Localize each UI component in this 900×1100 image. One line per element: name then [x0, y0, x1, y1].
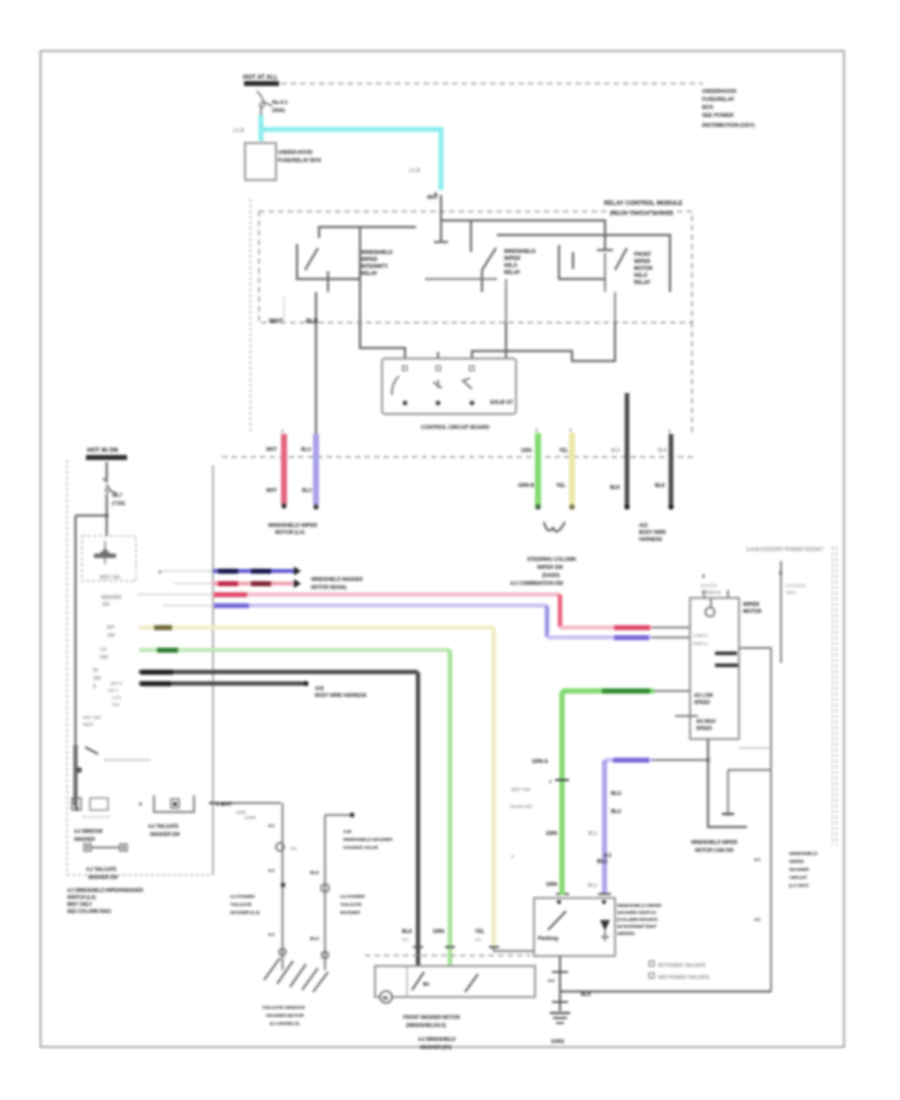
svg-text:WASHER: WASHER: [74, 837, 95, 843]
svg-text:BLK: BLK: [310, 936, 320, 942]
svg-text:WIPER: WIPER: [789, 859, 804, 865]
svg-text:SPEED: SPEED: [694, 700, 711, 706]
svg-text:4-2 COMBINATION SW: 4-2 COMBINATION SW: [510, 581, 563, 587]
svg-text:HI: HI: [93, 668, 98, 674]
svg-text:BLK: BLK: [310, 870, 320, 876]
svg-text:SOLID ST: SOLID ST: [490, 400, 513, 406]
svg-text:BLK: BLK: [581, 992, 592, 998]
svg-text:YEL: YEL: [559, 448, 568, 454]
svg-text:W/ POWER TAILGATE: W/ POWER TAILGATE: [658, 963, 707, 969]
svg-text:UNDER-HOOD: UNDER-HOOD: [278, 150, 313, 156]
svg-text:BOX: BOX: [702, 105, 714, 111]
svg-text:BLU: BLU: [611, 791, 622, 797]
svg-text:WIPER: WIPER: [634, 259, 651, 265]
svg-text:CONTROL CIRCUIT BOARD: CONTROL CIRCUIT BOARD: [421, 425, 490, 431]
svg-text:WASHER SWITCH: WASHER SWITCH: [617, 910, 656, 916]
svg-text:4-5: 4-5: [290, 846, 297, 852]
svg-text:(+) B: (+) B: [409, 168, 421, 174]
svg-text:HI/LO: HI/LO: [634, 273, 647, 279]
svg-text:No.7: No.7: [112, 493, 122, 499]
svg-text:RELAY: RELAY: [361, 271, 378, 277]
svg-text:4-2 TAILGATE: 4-2 TAILGATE: [86, 867, 117, 873]
svg-text:BODY WIRE: BODY WIRE: [639, 530, 667, 536]
svg-text:BODY WIRE HARNESS: BODY WIRE HARNESS: [315, 693, 367, 699]
svg-text:FRONT WASHER MOTOR: FRONT WASHER MOTOR: [403, 1015, 460, 1021]
svg-text:TAILGATE WINDOW: TAILGATE WINDOW: [262, 1005, 305, 1011]
svg-text:SEE COLUMN DIAG: SEE COLUMN DIAG: [67, 909, 112, 915]
svg-text:4-2 POWER: 4-2 POWER: [230, 894, 255, 900]
svg-text:GRN B: GRN B: [518, 483, 535, 489]
svg-text:GRN A: GRN A: [532, 759, 548, 765]
svg-text:No.4-1: No.4-1: [272, 100, 288, 106]
svg-text:(COLUMN MOUNT): (COLUMN MOUNT): [617, 917, 658, 923]
svg-text:(LX MODELS): (LX MODELS): [270, 1021, 300, 1027]
svg-text:GRN: GRN: [546, 831, 558, 837]
svg-text:BLK: BLK: [655, 483, 666, 489]
svg-text:BLK: BLK: [611, 448, 621, 454]
svg-text:TAILGATE: TAILGATE: [230, 902, 253, 908]
svg-text:RELAY: RELAY: [634, 280, 651, 286]
svg-text:WHT: WHT: [266, 488, 277, 494]
svg-text:TAILGATE: TAILGATE: [340, 902, 363, 908]
svg-text:WASHER (LX): WASHER (LX): [230, 910, 260, 916]
svg-text:ACC: ACC: [786, 590, 796, 596]
svg-text:BLU: BLU: [301, 447, 311, 453]
svg-text:W/ INTERMITTENT: W/ INTERMITTENT: [617, 924, 657, 930]
svg-text:BLU: BLU: [588, 831, 598, 837]
svg-text:(RELAY CIRCUIT BOARD): (RELAY CIRCUIT BOARD): [610, 211, 673, 217]
svg-text:4-2 WINDSHIELD: 4-2 WINDSHIELD: [418, 1037, 456, 1043]
svg-text:WIPER SW: WIPER SW: [537, 565, 563, 571]
svg-text:(+) 4-2 (+): (+) 4-2 (+): [786, 583, 806, 589]
svg-text:INT 7: INT 7: [108, 688, 119, 693]
svg-text:WASH SW: WASH SW: [510, 804, 533, 810]
svg-text:AS HIGH: AS HIGH: [696, 719, 716, 725]
svg-text:CIRCUIT: CIRCUIT: [789, 875, 807, 881]
svg-text:RELAY CONTROL MODULE: RELAY CONTROL MODULE: [604, 201, 683, 207]
svg-text:BLU: BLU: [597, 859, 608, 865]
svg-text:INT: INT: [107, 625, 115, 631]
svg-text:FRONT: FRONT: [634, 252, 651, 258]
svg-text:OFF 8: OFF 8: [110, 681, 123, 686]
svg-text:WINDSHIELD WASHER: WINDSHIELD WASHER: [343, 837, 393, 843]
svg-text:(+) 2 (+): (+) 2 (+): [701, 583, 717, 589]
svg-text:MIST SW: MIST SW: [511, 787, 531, 793]
svg-text:HOT IN ON: HOT IN ON: [87, 448, 118, 454]
svg-text:12345: 12345: [244, 815, 256, 820]
svg-text:WASHER: WASHER: [340, 910, 361, 916]
svg-text:BLU: BLU: [588, 883, 598, 889]
svg-text:MOTOR CAM SW: MOTOR CAM SW: [695, 848, 734, 854]
svg-text:5 WHT: 5 WHT: [216, 802, 232, 808]
svg-text:A16: A16: [315, 686, 324, 692]
svg-text:WIPER: WIPER: [504, 256, 521, 262]
svg-text:SW: SW: [102, 602, 110, 608]
svg-text:WINDSHIELD WASHER: WINDSHIELD WASHER: [311, 577, 363, 583]
svg-text:AS LOW: AS LOW: [694, 693, 713, 699]
svg-text:4: 4: [434, 192, 437, 198]
svg-text:INTERMITT.: INTERMITT.: [361, 264, 389, 270]
svg-text:SPEED: SPEED: [696, 726, 713, 732]
svg-text:SEE POWER: SEE POWER: [702, 113, 734, 119]
svg-text:HARNESS: HARNESS: [639, 537, 663, 543]
svg-text:SWITCH (LX): SWITCH (LX): [67, 895, 96, 901]
svg-text:4: 4: [779, 571, 782, 577]
svg-text:LO: LO: [100, 647, 107, 653]
svg-text:A16: A16: [343, 829, 352, 835]
svg-text:SW: SW: [93, 676, 101, 682]
svg-text:YEL: YEL: [556, 483, 566, 489]
svg-text:MIST SW: MIST SW: [100, 575, 120, 581]
svg-text:(30A): (30A): [272, 108, 285, 114]
svg-text:4: 4: [281, 429, 284, 435]
svg-text:BLU: BLU: [611, 809, 622, 815]
svg-text:WINDSHIELD WIPER: WINDSHIELD WIPER: [691, 840, 738, 846]
svg-text:4: 4: [569, 428, 572, 434]
svg-text:4-2: 4-2: [268, 823, 275, 829]
svg-text:MOTOR: MOTOR: [743, 609, 762, 615]
svg-text:BLK: BLK: [402, 929, 413, 935]
svg-text:BLU: BLU: [302, 488, 312, 494]
svg-text:M: M: [383, 996, 388, 1002]
svg-text:WASHER (DX): WASHER (DX): [420, 1045, 452, 1051]
svg-text:(7.5A): (7.5A): [112, 501, 125, 507]
svg-text:WASHER SW: WASHER SW: [150, 832, 180, 838]
svg-text:4-2 TAILGATE: 4-2 TAILGATE: [148, 824, 179, 830]
svg-text:4-2 WINDSHIELD WIPER/WASHER: 4-2 WINDSHIELD WIPER/WASHER: [67, 888, 144, 894]
svg-text:UNDERHOOD: UNDERHOOD: [702, 89, 736, 95]
svg-text:(+) B: (+) B: [233, 128, 245, 134]
svg-text:BLK: BLK: [610, 485, 621, 491]
svg-text:FUSE/RELAY BOX: FUSE/RELAY BOX: [278, 158, 322, 164]
svg-text:GRN: GRN: [546, 882, 558, 888]
svg-text:KEY SW: KEY SW: [83, 715, 101, 721]
svg-text:MOTOR (LX): MOTOR (LX): [275, 530, 305, 536]
svg-text:(DASH): (DASH): [542, 573, 560, 579]
svg-text:4-2: 4-2: [548, 978, 555, 984]
svg-text:BLK: BLK: [658, 448, 668, 454]
svg-text:M+: M+: [423, 982, 430, 988]
svg-text:Parking: Parking: [538, 936, 558, 942]
svg-text:WASHER: WASHER: [101, 595, 122, 601]
svg-text:WINDSHIELD: WINDSHIELD: [504, 249, 536, 255]
svg-text:YEL: YEL: [475, 929, 485, 935]
svg-text:S-A ACCESSORY POWER SOCKET: S-A ACCESSORY POWER SOCKET: [746, 547, 824, 553]
svg-text:WIPERS: WIPERS: [617, 931, 636, 937]
svg-text:MIST ONLY: MIST ONLY: [67, 902, 93, 908]
svg-text:HI/LO: HI/LO: [504, 263, 517, 269]
svg-text:G401: G401: [551, 1039, 564, 1045]
svg-text:DISTRIBUTION (ODY): DISTRIBUTION (ODY): [702, 123, 755, 129]
svg-text:MOTOR: MOTOR: [634, 266, 653, 272]
svg-text:MOTOR SIGNAL: MOTOR SIGNAL: [311, 585, 348, 591]
svg-text:4-2: 4-2: [268, 868, 275, 874]
svg-text:WINDSHIELD: WINDSHIELD: [361, 250, 393, 256]
svg-text:LO 6: LO 6: [112, 695, 122, 700]
svg-text:4-2: 4-2: [475, 937, 482, 942]
svg-text:FUSE/RELAY: FUSE/RELAY: [702, 97, 735, 103]
svg-text:W/O POWER TAILGATE: W/O POWER TAILGATE: [658, 975, 710, 981]
svg-text:CHANGE VALVE: CHANGE VALVE: [343, 845, 379, 851]
svg-text:A22: A22: [639, 523, 648, 529]
svg-text:GRN: GRN: [521, 448, 532, 454]
svg-text:4-2 WINDOW: 4-2 WINDOW: [74, 829, 103, 835]
svg-text:(WINDSHIELD/LX): (WINDSHIELD/LX): [406, 1023, 446, 1029]
svg-text:4: 4: [702, 574, 705, 580]
svg-text:4-2: 4-2: [268, 932, 275, 938]
svg-text:HI 5: HI 5: [112, 702, 120, 707]
svg-text:GRN: GRN: [433, 929, 445, 935]
svg-text:MIST: MIST: [83, 722, 94, 728]
svg-text:WIPER: WIPER: [743, 602, 760, 608]
svg-text:HIGH 1: HIGH 1: [693, 641, 708, 647]
svg-text:4-2: 4-2: [402, 937, 409, 942]
svg-text:(LX ODY): (LX ODY): [789, 883, 809, 889]
svg-text:4: 4: [668, 429, 671, 435]
svg-text:STEERING COLUMN: STEERING COLUMN: [527, 557, 576, 563]
svg-text:WINDSHIELD WIPER: WINDSHIELD WIPER: [268, 523, 318, 529]
svg-text:WASHER SW: WASHER SW: [88, 875, 118, 881]
svg-text:WHT: WHT: [269, 319, 283, 325]
svg-text:RELAY: RELAY: [504, 270, 521, 276]
svg-text:4-2: 4-2: [754, 857, 761, 863]
svg-text:4-2 POWER: 4-2 POWER: [340, 894, 365, 900]
svg-text:WINDSHIELD: WINDSHIELD: [789, 851, 818, 857]
svg-text:WIPER: WIPER: [361, 257, 378, 263]
svg-text:HOT AT ALL: HOT AT ALL: [243, 75, 278, 81]
svg-text:WASHER: WASHER: [789, 867, 810, 873]
svg-text:LOW 2: LOW 2: [693, 633, 707, 639]
svg-text:WINDSHIELD WIPER: WINDSHIELD WIPER: [617, 903, 662, 909]
svg-text:4-2: 4-2: [754, 917, 761, 923]
svg-text:WHT: WHT: [266, 447, 277, 453]
svg-text:4: 4: [535, 428, 538, 434]
svg-text:SW: SW: [107, 633, 115, 639]
svg-text:SW: SW: [100, 655, 108, 661]
svg-text:WASHER MOTOR: WASHER MOTOR: [266, 1013, 304, 1019]
